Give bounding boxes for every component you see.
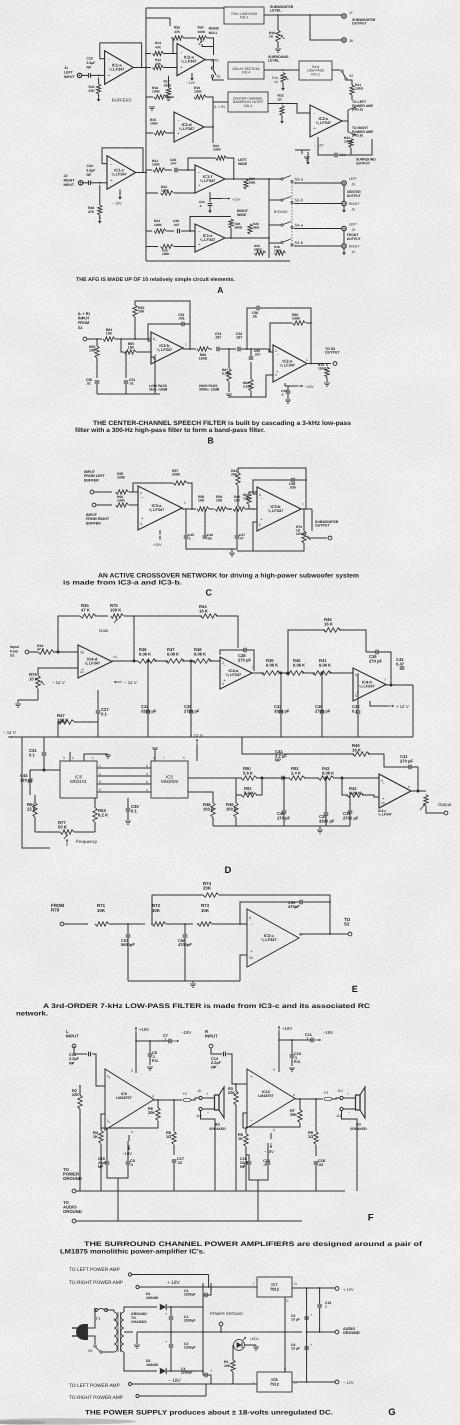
svg-text:− 12 V: − 12 V <box>190 733 203 738</box>
svg-text:THE CENTER-CHANNEL SPEECH FILT: THE CENTER-CHANNEL SPEECH FILTER is buil… <box>93 420 352 427</box>
svg-text:6: 6 <box>153 337 155 341</box>
svg-text:100K: 100K <box>164 84 173 88</box>
svg-text:1Ω: 1Ω <box>166 1134 171 1139</box>
svg-text:S2: S2 <box>349 74 353 78</box>
svg-text:330K: 330K <box>172 473 181 477</box>
svg-text:+ 12 V: + 12 V <box>396 704 409 709</box>
svg-text:0.1: 0.1 <box>101 711 108 716</box>
svg-text:8.06 K: 8.06 K <box>266 662 278 667</box>
svg-text:5: 5 <box>131 1069 133 1073</box>
svg-text:100Ω: 100Ω <box>355 86 364 90</box>
svg-text:¼ LF347: ¼ LF347 <box>280 362 296 367</box>
svg-text:LM1875T: LM1875T <box>116 1096 132 1100</box>
svg-text:¼ LF347: ¼ LF347 <box>200 237 216 242</box>
svg-text:S3-a: S3-a <box>295 177 304 182</box>
svg-text:TO RIGHT POWER AMP: TO RIGHT POWER AMP <box>69 1395 123 1401</box>
svg-text:270 pF: 270 pF <box>238 657 252 662</box>
svg-text:270 pF: 270 pF <box>369 658 383 663</box>
svg-text:0.47: 0.47 <box>396 661 405 666</box>
svg-text:(L-R): (L-R) <box>211 59 219 63</box>
svg-text:9.53K: 9.53K <box>243 384 252 388</box>
svg-text:10K: 10K <box>243 496 250 500</box>
svg-text:.027: .027 <box>254 352 261 356</box>
svg-text:0.1: 0.1 <box>29 752 36 757</box>
svg-text:¼ LF347: ¼ LF347 <box>179 126 195 131</box>
svg-text:CHASSIS: CHASSIS <box>131 1320 147 1324</box>
svg-text:10 µF: 10 µF <box>291 1347 300 1351</box>
svg-text:2700 pF: 2700 pF <box>184 708 200 713</box>
svg-text:BUFFERS: BUFFERS <box>112 98 132 103</box>
svg-text:¼ LF347: ¼ LF347 <box>109 66 125 71</box>
svg-text:LM1875T: LM1875T <box>258 1094 274 1098</box>
svg-text:8.06 K: 8.06 K <box>194 651 206 656</box>
svg-text:network.: network. <box>16 1011 48 1018</box>
svg-text:Output: Output <box>438 802 452 807</box>
svg-text:3300 pF: 3300 pF <box>141 708 157 713</box>
svg-text:47K: 47K <box>155 62 162 66</box>
svg-text:10K: 10K <box>128 346 135 350</box>
svg-text:+18V: +18V <box>282 1026 292 1031</box>
svg-text:8.2 K: 8.2 K <box>98 812 109 817</box>
svg-text:FIG.5: FIG.5 <box>311 72 320 76</box>
svg-text:.047: .047 <box>173 223 180 227</box>
svg-text:8.06K: 8.06K <box>222 371 231 375</box>
svg-text:¼ LF347: ¼ LF347 <box>226 672 242 677</box>
svg-text:7: 7 <box>302 503 304 507</box>
svg-text:12: 12 <box>80 670 84 674</box>
svg-text:R14: R14 <box>155 41 161 45</box>
svg-text:270 pF: 270 pF <box>400 758 414 763</box>
svg-text:100K: 100K <box>161 188 170 192</box>
svg-text:20K: 20K <box>203 886 212 891</box>
svg-text:2.4 K: 2.4 K <box>291 770 301 775</box>
svg-text:8.08 K: 8.08 K <box>322 770 334 775</box>
svg-text:NP: NP <box>87 65 92 69</box>
svg-text:.039: .039 <box>289 486 296 490</box>
svg-text:J5: J5 <box>351 183 355 187</box>
svg-text:LEVEL: LEVEL <box>268 59 280 63</box>
svg-text:GROUND: GROUND <box>63 1209 82 1214</box>
svg-text:.027: .027 <box>215 336 222 340</box>
svg-text:C: C <box>206 588 213 598</box>
svg-text:1: 1 <box>92 756 94 760</box>
svg-text:OUTPUT: OUTPUT <box>352 22 367 26</box>
svg-text:(L + R): (L + R) <box>78 312 90 316</box>
svg-text:¼ LF347: ¼ LF347 <box>316 120 332 125</box>
svg-text:LED1: LED1 <box>250 1337 259 1341</box>
svg-text:RIGHT: RIGHT <box>349 202 360 206</box>
svg-text:+12V: +12V <box>232 198 241 202</box>
svg-text:2.2µF: 2.2µF <box>87 168 96 172</box>
svg-text:4: 4 <box>293 1093 295 1097</box>
svg-text:¼ LF347: ¼ LF347 <box>378 813 392 817</box>
svg-text:6: 6 <box>99 788 101 792</box>
svg-text:OUTPUT: OUTPUT <box>315 524 330 528</box>
svg-text:100 K: 100 K <box>226 806 237 811</box>
svg-text:2: 2 <box>99 764 101 768</box>
svg-text:GROUND: GROUND <box>63 1176 82 1181</box>
svg-text:filter with a 300-Hz high-pass: filter with a 300-Hz high-pass filter to… <box>75 427 265 434</box>
svg-text:E: E <box>352 984 358 994</box>
svg-text:47 K: 47 K <box>37 648 45 652</box>
svg-text:8.06 K: 8.06 K <box>167 651 179 656</box>
svg-text:− 12 V: − 12 V <box>52 680 65 685</box>
svg-text:− 18V: − 18V <box>168 1378 182 1384</box>
svg-text:OUTPUT: OUTPUT <box>347 194 362 198</box>
svg-text:10K: 10K <box>201 908 210 913</box>
svg-text:Frequency: Frequency <box>76 839 98 844</box>
svg-text:S3-b: S3-b <box>295 198 304 203</box>
svg-text:+12V: +12V <box>305 385 314 389</box>
svg-text:TO LEFT POWER AMP: TO LEFT POWER AMP <box>69 1383 120 1389</box>
svg-text:2200µF: 2200µF <box>184 1319 196 1323</box>
svg-text:150Ω: 150Ω <box>199 357 208 361</box>
svg-text:1: 1 <box>72 756 74 760</box>
svg-text:¼ LF347: ¼ LF347 <box>268 508 284 513</box>
svg-text:47 K: 47 K <box>81 607 91 612</box>
svg-text:10: 10 <box>381 801 385 805</box>
svg-text:RIGHT: RIGHT <box>64 178 76 182</box>
svg-text:R78: R78 <box>51 908 60 913</box>
svg-text:100K: 100K <box>152 89 161 93</box>
svg-text:+12V: +12V <box>153 543 162 547</box>
svg-text:+ 12V: + 12V <box>343 1287 354 1292</box>
svg-text:C23: C23 <box>87 57 93 61</box>
svg-text:−18V: −18V <box>181 1030 191 1035</box>
svg-text:15K: 15K <box>224 1364 231 1368</box>
svg-text:100K: 100K <box>152 162 161 166</box>
svg-text:FIG.4: FIG.4 <box>242 71 251 75</box>
svg-text:T1: T1 <box>113 1318 117 1322</box>
svg-text:¼ LF347: ¼ LF347 <box>85 660 101 665</box>
svg-text:J4: J4 <box>351 250 355 254</box>
svg-text:RIGHT: RIGHT <box>349 245 360 249</box>
svg-text:0.1: 0.1 <box>352 708 358 713</box>
svg-text:3300 pF: 3300 pF <box>274 708 290 713</box>
svg-text:LM1875 monolithic power-amplif: LM1875 monolithic power-amplifier IC's. <box>60 1249 205 1256</box>
svg-text:4: 4 <box>152 1094 154 1098</box>
svg-text:.1: .1 <box>281 392 284 396</box>
svg-text:−18V: −18V <box>323 1030 333 1035</box>
svg-text:6: 6 <box>355 673 357 677</box>
svg-text:47K: 47K <box>88 210 95 214</box>
svg-text:− 12V: − 12V <box>186 81 196 85</box>
svg-text:LEFT: LEFT <box>349 177 357 181</box>
svg-text:6: 6 <box>146 764 148 768</box>
svg-text:D: D <box>224 865 231 876</box>
svg-text:7: 7 <box>384 678 386 682</box>
svg-text:−18V: −18V <box>264 1149 274 1154</box>
svg-text:2: 2 <box>222 661 224 665</box>
svg-text:1K: 1K <box>238 1136 243 1141</box>
svg-text:100K: 100K <box>150 121 159 125</box>
svg-text:100K: 100K <box>117 498 126 502</box>
svg-text:FROM: FROM <box>78 321 89 325</box>
svg-text:3: 3 <box>63 756 65 760</box>
svg-text:¼ LF347: ¼ LF347 <box>181 59 197 64</box>
svg-text:2: 2 <box>107 1119 109 1123</box>
svg-text:.01: .01 <box>129 382 134 386</box>
svg-text:3: 3 <box>273 1128 275 1132</box>
svg-text:1500: 1500 <box>274 248 281 252</box>
svg-text:− 12 V: − 12 V <box>3 730 16 735</box>
svg-text:2200µF: 2200µF <box>184 1293 196 1297</box>
svg-text:BUFFER: BUFFER <box>84 478 99 482</box>
svg-text:8Ω: 8Ω <box>215 1123 220 1127</box>
svg-text:THE AFG IS MADE UP OF 10 relat: THE AFG IS MADE UP OF 10 relatively simp… <box>76 277 236 283</box>
svg-text:7: 7 <box>185 343 187 347</box>
svg-text:7: 7 <box>163 756 165 760</box>
svg-text:1: 1 <box>107 1074 109 1078</box>
svg-text:−18V: −18V <box>122 1151 132 1156</box>
svg-text:560Ω: 560Ω <box>254 247 262 251</box>
svg-text:(FIG.6): (FIG.6) <box>352 108 363 112</box>
svg-text:8.06 K: 8.06 K <box>293 662 305 667</box>
svg-text:A: A <box>217 285 223 295</box>
svg-text:20K: 20K <box>138 310 145 314</box>
svg-text:56Ω: 56Ω <box>253 225 260 229</box>
svg-text:F1: F1 <box>96 1316 101 1321</box>
svg-text:1: 1 <box>184 501 186 505</box>
svg-text:1Ω: 1Ω <box>308 1134 313 1139</box>
svg-text:INPUT: INPUT <box>64 75 75 79</box>
svg-text:100K: 100K <box>194 89 203 93</box>
svg-text:NP: NP <box>275 758 281 763</box>
svg-text:J11: J11 <box>336 1114 341 1118</box>
svg-text:3: 3 <box>275 373 277 377</box>
svg-text:2: 2 <box>146 788 148 792</box>
svg-text:INPUT: INPUT <box>66 1033 79 1038</box>
svg-text:FIG.3: FIG.3 <box>244 104 252 108</box>
svg-text:S2: S2 <box>344 922 350 927</box>
svg-text:2700 pF: 2700 pF <box>315 708 331 713</box>
svg-text:OUTPUT: OUTPUT <box>325 351 340 355</box>
svg-text:NP: NP <box>98 1165 104 1169</box>
svg-text:47K: 47K <box>174 30 181 34</box>
svg-text:8.06 K: 8.06 K <box>139 651 151 656</box>
svg-text:+ 18V: + 18V <box>167 1280 181 1286</box>
svg-text:GROUND: GROUND <box>343 1331 360 1335</box>
svg-text:TO RIGHT POWER AMP: TO RIGHT POWER AMP <box>69 1280 123 1286</box>
svg-text:1: 1 <box>306 358 308 362</box>
svg-text:8: 8 <box>146 780 148 784</box>
svg-text:16 K: 16 K <box>324 621 334 626</box>
svg-text:22K: 22K <box>228 1090 235 1095</box>
svg-text:10K: 10K <box>198 499 205 503</box>
svg-text:.05: .05 <box>252 315 257 319</box>
svg-text:.027: .027 <box>236 336 243 340</box>
svg-text:− 12V: − 12V <box>314 144 324 148</box>
svg-text:10K: 10K <box>152 908 161 913</box>
svg-text:10K: 10K <box>97 908 106 913</box>
svg-text:.22: .22 <box>318 1163 323 1167</box>
svg-text:OUTPUT: OUTPUT <box>347 237 362 241</box>
svg-text:C24: C24 <box>87 164 93 168</box>
svg-text:2700 pF: 2700 pF <box>343 815 359 820</box>
svg-text:NP: NP <box>240 1165 246 1169</box>
svg-text:50 K: 50 K <box>58 824 68 829</box>
svg-text:2.2µF: 2.2µF <box>87 61 96 65</box>
svg-text:16 K: 16 K <box>352 747 362 752</box>
svg-text:1K: 1K <box>278 98 283 102</box>
svg-text:+18V: +18V <box>139 1027 149 1032</box>
svg-text:3: 3 <box>131 1130 133 1134</box>
svg-text:J2: J2 <box>64 174 68 178</box>
svg-text:.047: .047 <box>170 161 177 165</box>
svg-text:WIDE: WIDE <box>237 213 247 217</box>
svg-text:F2: F2 <box>183 1092 187 1096</box>
svg-text:14: 14 <box>113 655 117 659</box>
svg-text:10K: 10K <box>234 499 241 503</box>
svg-text:J3: J3 <box>351 228 355 232</box>
svg-text:BYPASS: BYPASS <box>274 210 288 214</box>
svg-text:20K: 20K <box>148 1110 155 1115</box>
svg-text:¼ LF347: ¼ LF347 <box>149 507 165 512</box>
svg-text:J1: J1 <box>64 66 68 70</box>
svg-text:P.G.: P.G. <box>294 1060 301 1064</box>
svg-text:150Ω: 150Ω <box>318 366 327 370</box>
svg-text:5: 5 <box>355 694 357 698</box>
svg-text:G: G <box>388 1407 395 1418</box>
svg-text:− 12V: − 12V <box>112 202 122 206</box>
svg-text:3: 3 <box>222 682 224 686</box>
svg-text:9: 9 <box>249 916 251 920</box>
svg-text:P.G.: P.G. <box>152 1059 159 1063</box>
svg-text:100K: 100K <box>162 252 170 256</box>
svg-text:3: 3 <box>140 522 142 526</box>
svg-text:J12: J12 <box>337 1089 343 1093</box>
svg-text:¼ LF347: ¼ LF347 <box>261 937 277 942</box>
svg-text:22 K: 22 K <box>27 806 37 811</box>
svg-text:5: 5 <box>183 756 185 760</box>
svg-text:(FIG.6): (FIG.6) <box>352 134 363 138</box>
svg-text:J7: J7 <box>349 11 353 15</box>
svg-text:16 K: 16 K <box>199 608 209 613</box>
svg-text:10K: 10K <box>216 499 223 503</box>
svg-text:.1: .1 <box>188 536 191 540</box>
svg-text:2: 2 <box>275 349 277 353</box>
svg-text:is made from IC3-a and IC3-b.: is made from IC3-a and IC3-b. <box>63 579 182 586</box>
svg-text:100K: 100K <box>213 147 222 151</box>
svg-text:− 12 V: − 12 V <box>124 680 137 685</box>
svg-text:POWER GROUND: POWER GROUND <box>210 1311 243 1316</box>
svg-text:LEVEL: LEVEL <box>270 9 282 13</box>
svg-text:.47: .47 <box>239 536 244 540</box>
svg-text:NP: NP <box>69 1060 75 1065</box>
svg-text:LEVEL: LEVEL <box>296 532 307 536</box>
svg-text:8: 8 <box>408 785 410 789</box>
svg-text:WIDE: WIDE <box>238 162 248 166</box>
svg-text:F: F <box>368 1213 374 1224</box>
svg-text:560Ω: 560Ω <box>235 225 243 229</box>
svg-text:¼ LF347: ¼ LF347 <box>157 347 173 352</box>
svg-text:5: 5 <box>259 523 261 527</box>
svg-text:S4-a: S4-a <box>295 223 304 228</box>
svg-text:B: B <box>207 436 213 446</box>
svg-text:3: 3 <box>146 772 148 776</box>
svg-text:LEFT: LEFT <box>64 70 74 74</box>
svg-text:8.08 K: 8.08 K <box>349 790 361 795</box>
svg-text:4: 4 <box>99 772 101 776</box>
svg-text:¼ LF347: ¼ LF347 <box>200 178 216 183</box>
svg-text:100Ω: 100Ω <box>344 139 353 143</box>
svg-text:1: 1 <box>325 1305 327 1309</box>
svg-text:56Ω: 56Ω <box>249 180 256 184</box>
svg-text:S1: S1 <box>78 326 83 330</box>
svg-text:INPUT: INPUT <box>64 183 75 187</box>
svg-text:8.06 K: 8.06 K <box>319 662 331 667</box>
svg-text:TO LEFT POWER AMP: TO LEFT POWER AMP <box>69 1267 120 1273</box>
svg-text:NP: NP <box>87 173 92 177</box>
svg-text:.1: .1 <box>263 1163 266 1167</box>
svg-text:FIG.2: FIG.2 <box>240 16 249 20</box>
svg-text:INPUT: INPUT <box>78 317 90 321</box>
svg-text:I: I <box>253 1282 254 1286</box>
svg-text:¼ LF347: ¼ LF347 <box>359 683 375 688</box>
svg-text:100K: 100K <box>292 317 301 321</box>
svg-text:5: 5 <box>273 1068 275 1072</box>
svg-text:22K: 22K <box>72 1092 79 1097</box>
svg-text:47K: 47K <box>155 45 162 49</box>
svg-text:470pF: 470pF <box>288 904 300 909</box>
svg-text:0.1: 0.1 <box>131 808 138 813</box>
svg-text:100K: 100K <box>198 30 207 34</box>
svg-text:20K: 20K <box>290 1112 297 1117</box>
svg-text:10 K: 10 K <box>29 676 39 681</box>
svg-text:3300 pF: 3300 pF <box>319 818 335 823</box>
svg-text:1K: 1K <box>93 1134 98 1139</box>
svg-text:8Ω: 8Ω <box>356 1123 361 1127</box>
svg-text:J9: J9 <box>197 1089 201 1093</box>
svg-text:.1: .1 <box>130 1163 133 1167</box>
svg-text:5: 5 <box>153 357 155 361</box>
svg-text:13: 13 <box>80 650 84 654</box>
svg-text:SPEAKER: SPEAKER <box>350 1127 367 1131</box>
svg-text:.01: .01 <box>86 382 91 386</box>
svg-text:10 µF: 10 µF <box>291 1318 300 1322</box>
svg-text:INPUT: INPUT <box>205 1033 218 1038</box>
svg-text:J8: J8 <box>349 39 353 43</box>
svg-text:J6: J6 <box>351 208 355 212</box>
svg-text:47K: 47K <box>89 89 96 93</box>
svg-text:100 K: 100 K <box>110 607 122 612</box>
svg-text:6: 6 <box>259 493 261 497</box>
svg-text:S5: S5 <box>88 1349 92 1353</box>
svg-text:5.6 K: 5.6 K <box>244 790 254 795</box>
svg-text:1: 1 <box>252 665 254 669</box>
svg-text:THE POWER SUPPLY produces abou: THE POWER SUPPLY produces about ± 18-vol… <box>85 1410 333 1417</box>
svg-text:− 12V: − 12V <box>343 1380 354 1385</box>
svg-text:2: 2 <box>140 491 142 495</box>
svg-text:A 3rd-ORDER 7-kHz LOW-PASS FIL: A 3rd-ORDER 7-kHz LOW-PASS FILTER is mad… <box>43 1003 370 1010</box>
svg-text:7812: 7812 <box>270 1287 280 1292</box>
svg-text:SPEAKER: SPEAKER <box>209 1127 226 1131</box>
svg-text:S1: S1 <box>216 75 220 79</box>
svg-text:100 K: 100 K <box>203 806 214 811</box>
svg-text:.22: .22 <box>177 1161 182 1165</box>
svg-text:BUFFER: BUFFER <box>86 521 101 525</box>
svg-text:THE SURROUND CHANNEL POWER AMP: THE SURROUND CHANNEL POWER AMPLIFIERS ar… <box>84 1241 423 1248</box>
svg-text:S1: S1 <box>10 654 14 658</box>
svg-text:20K: 20K <box>231 473 238 477</box>
svg-text:8: 8 <box>99 780 101 784</box>
svg-text:S4-b: S4-b <box>295 240 304 245</box>
svg-text:9: 9 <box>381 779 383 783</box>
svg-text:MN3008: MN3008 <box>161 779 178 784</box>
svg-text:5.6 K: 5.6 K <box>243 770 253 775</box>
svg-text:(L + R): (L + R) <box>214 105 225 109</box>
svg-text:.001: .001 <box>178 317 185 321</box>
